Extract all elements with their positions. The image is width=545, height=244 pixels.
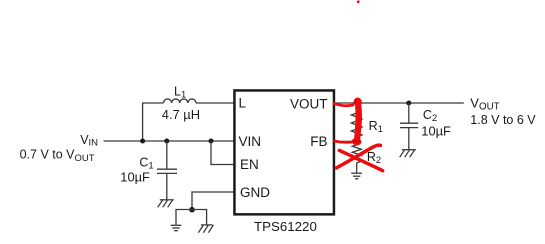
node: ground junction xyxy=(189,207,195,213)
svg-text:TPS61220: TPS61220 xyxy=(254,219,317,234)
ground: earth under R2 xyxy=(351,173,362,179)
svg-text:VOUT: VOUT xyxy=(290,96,328,111)
ground: chassis under C2 xyxy=(400,150,416,158)
node: junction dot showing through red xyxy=(355,99,359,103)
wire: EN stub xyxy=(211,141,234,165)
svg-text:FB: FB xyxy=(310,134,327,149)
svg-text:L: L xyxy=(239,96,247,111)
annotation: red blob at R1 top junction xyxy=(354,98,362,107)
annotation: second red pass over R1 xyxy=(355,104,360,139)
node: EN stub junction xyxy=(209,139,214,144)
wire: VOUT wire showing through red blob xyxy=(354,102,362,104)
inductor L1 xyxy=(164,99,196,103)
annotation: red X over R2, descending stroke xyxy=(339,150,382,170)
wire: inductor to L pin xyxy=(196,102,234,104)
ground: chassis (right of GND) xyxy=(198,225,213,233)
wire: to earth ground (left) xyxy=(176,210,192,226)
resistor R1 xyxy=(351,103,362,142)
svg-text:VIN: VIN xyxy=(239,134,262,149)
svg-text:10µF: 10µF xyxy=(421,124,451,139)
wire: FB pin xyxy=(335,141,357,143)
node: C1 junction xyxy=(164,139,169,144)
wire: VIN input rail xyxy=(104,140,235,142)
annotation: red stroke over R1 xyxy=(357,102,359,141)
svg-text:GND: GND xyxy=(240,185,270,200)
annotation: red X over R2, ascending stroke xyxy=(336,145,380,168)
wire: inductor left leg xyxy=(143,103,164,141)
wire: GND pin to ground junction xyxy=(192,192,234,210)
wire: VOUT rail xyxy=(335,102,464,104)
IC U1 TPS61220 xyxy=(234,90,334,214)
wire: FB wire showing through red blob xyxy=(353,141,361,143)
svg-text:10µF: 10µF xyxy=(120,170,150,185)
wire: to chassis ground (right) xyxy=(192,210,207,225)
svg-text:4.7 µH: 4.7 µH xyxy=(162,107,200,122)
svg-text:1.8 V to 6 V: 1.8 V to 6 V xyxy=(470,113,536,127)
node: C2 junction xyxy=(406,101,411,106)
node: R1 top junction xyxy=(355,100,360,105)
annotation: red stroke over FB wire xyxy=(335,141,354,142)
ground: chassis under C1 xyxy=(158,200,174,208)
svg-text:EN: EN xyxy=(240,157,259,172)
ground: earth (left of GND) xyxy=(171,225,182,230)
annotation: red stroke over VOUT wire xyxy=(334,103,353,105)
annotation: red blob at R1 bottom / FB junction xyxy=(352,138,361,145)
capacitor C1 xyxy=(157,141,177,200)
annotation: stray red dot top xyxy=(357,0,360,3)
resistor R2 xyxy=(352,142,361,173)
capacitor C2 xyxy=(400,103,418,150)
node: inductor leg / VIN rail junction xyxy=(140,139,145,144)
